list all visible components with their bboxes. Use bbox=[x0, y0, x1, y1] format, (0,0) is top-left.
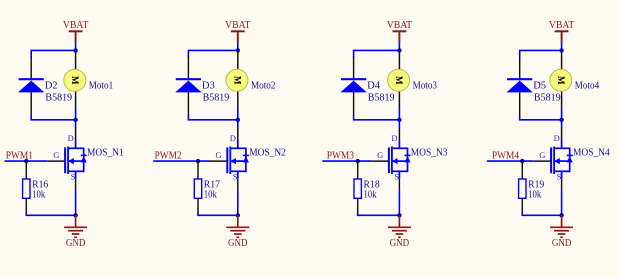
ground GND power port (circuit 3) bbox=[388, 215, 411, 237]
mosfet MOS_N3 (circuit 3) bbox=[371, 140, 410, 191]
wire resistor bottom to source node (circuit 1) bbox=[26, 213, 75, 216]
junction top node (circuit 4) bbox=[559, 48, 563, 52]
wire PWM4 net to gate (circuit 4) bbox=[487, 160, 534, 162]
svg-text:B5819: B5819 bbox=[203, 91, 230, 103]
ground GND power port (circuit 2) bbox=[226, 215, 249, 237]
wire top node to diode cathode branch (circuit 2) bbox=[188, 50, 237, 57]
svg-text:M: M bbox=[232, 76, 242, 85]
wire resistor bottom to source node (circuit 3) bbox=[358, 213, 400, 216]
svg-text:GND: GND bbox=[552, 238, 572, 249]
wire diode anode to drain node (circuit 4) bbox=[520, 115, 562, 120]
svg-text:G: G bbox=[377, 150, 383, 160]
junction source-ground node (circuit 1) bbox=[73, 213, 77, 217]
wire diode anode to drain node (circuit 3) bbox=[354, 115, 400, 120]
power port VBAT (circuit 3) bbox=[387, 20, 413, 43]
wire source pin to ground node (circuit 4) bbox=[561, 190, 563, 215]
svg-text:D: D bbox=[68, 133, 74, 143]
motor Moto2 (circuit 2) bbox=[226, 50, 248, 140]
wire resistor bottom to source node (circuit 4) bbox=[522, 213, 561, 216]
resistor R17 10k (circuit 2) bbox=[194, 161, 201, 214]
junction top node (circuit 1) bbox=[73, 48, 77, 52]
svg-text:10k: 10k bbox=[364, 189, 378, 201]
svg-text:MOS_N1: MOS_N1 bbox=[87, 147, 124, 159]
svg-text:Moto3: Moto3 bbox=[413, 80, 437, 92]
svg-text:VBAT: VBAT bbox=[387, 20, 413, 31]
wire source pin to ground node (circuit 3) bbox=[398, 190, 400, 215]
diode D3 B5819 (circuit 2) bbox=[175, 57, 201, 117]
wire source pin to ground node (circuit 2) bbox=[237, 190, 239, 215]
power port VBAT (circuit 2) bbox=[225, 20, 251, 43]
svg-text:PWM1: PWM1 bbox=[6, 151, 33, 162]
svg-text:10k: 10k bbox=[528, 189, 542, 201]
resistor R18 10k (circuit 3) bbox=[354, 161, 361, 214]
svg-text:B5819: B5819 bbox=[534, 91, 561, 103]
wire resistor bottom to source node (circuit 2) bbox=[198, 213, 238, 216]
wire top node to diode cathode branch (circuit 3) bbox=[354, 50, 400, 57]
svg-text:D2: D2 bbox=[45, 79, 58, 91]
junction source-ground node (circuit 3) bbox=[397, 213, 401, 217]
mosfet MOS_N4 (circuit 4) bbox=[533, 140, 572, 191]
wire diode anode to drain node (circuit 2) bbox=[188, 115, 237, 120]
svg-text:VBAT: VBAT bbox=[549, 20, 575, 31]
svg-text:Moto1: Moto1 bbox=[89, 80, 113, 92]
svg-text:MOS_N3: MOS_N3 bbox=[411, 147, 448, 159]
svg-text:B5819: B5819 bbox=[45, 91, 72, 103]
svg-text:M: M bbox=[556, 76, 566, 85]
ground GND power port (circuit 1) bbox=[64, 215, 87, 237]
svg-text:Moto2: Moto2 bbox=[251, 80, 275, 92]
svg-text:VBAT: VBAT bbox=[225, 20, 251, 31]
wire VBAT stem to drain net (circuit 3) bbox=[398, 43, 400, 51]
svg-text:GND: GND bbox=[228, 238, 248, 249]
svg-text:PWM3: PWM3 bbox=[327, 151, 354, 162]
junction drain node (circuit 4) bbox=[559, 118, 563, 122]
svg-text:S: S bbox=[233, 171, 238, 181]
power port VBAT (circuit 4) bbox=[549, 20, 575, 43]
svg-text:Moto4: Moto4 bbox=[575, 80, 600, 92]
junction gate-resistor node (circuit 3) bbox=[356, 159, 360, 163]
wire VBAT stem to drain net (circuit 1) bbox=[75, 43, 77, 51]
svg-text:VBAT: VBAT bbox=[63, 20, 89, 31]
svg-text:M: M bbox=[70, 76, 80, 85]
svg-text:PWM2: PWM2 bbox=[155, 151, 182, 162]
svg-text:G: G bbox=[539, 150, 545, 160]
junction drain node (circuit 2) bbox=[236, 118, 240, 122]
svg-text:B5819: B5819 bbox=[368, 91, 395, 103]
svg-text:PWM4: PWM4 bbox=[492, 151, 520, 162]
motor Moto1 (circuit 1) bbox=[64, 50, 86, 140]
ground GND power port (circuit 4) bbox=[550, 215, 573, 237]
junction top node (circuit 3) bbox=[397, 48, 401, 52]
wire top node to diode cathode branch (circuit 1) bbox=[31, 50, 75, 57]
wire VBAT stem to drain net (circuit 2) bbox=[237, 43, 239, 51]
svg-text:D5: D5 bbox=[533, 79, 546, 91]
diode D4 B5819 (circuit 3) bbox=[340, 57, 366, 117]
svg-text:GND: GND bbox=[66, 238, 86, 249]
junction gate-resistor node (circuit 4) bbox=[520, 159, 524, 163]
diode D5 B5819 (circuit 4) bbox=[507, 57, 533, 117]
svg-text:MOS_N2: MOS_N2 bbox=[249, 147, 286, 159]
junction gate-resistor node (circuit 1) bbox=[24, 159, 28, 163]
junction drain node (circuit 3) bbox=[397, 118, 401, 122]
svg-text:G: G bbox=[216, 150, 222, 160]
wire PWM1 net to gate (circuit 1) bbox=[5, 160, 48, 162]
svg-text:D: D bbox=[554, 133, 560, 143]
svg-text:M: M bbox=[394, 76, 404, 85]
motor Moto3 (circuit 3) bbox=[388, 50, 410, 140]
power port VBAT (circuit 1) bbox=[63, 20, 89, 43]
svg-text:D3: D3 bbox=[202, 79, 215, 91]
svg-text:D: D bbox=[230, 133, 236, 143]
svg-text:MOS_N4: MOS_N4 bbox=[573, 147, 610, 159]
mosfet MOS_N1 (circuit 1) bbox=[47, 140, 86, 191]
wire PWM3 net to gate (circuit 3) bbox=[322, 160, 371, 162]
svg-text:S: S bbox=[71, 171, 76, 181]
motor Moto4 (circuit 4) bbox=[550, 50, 572, 140]
svg-text:S: S bbox=[557, 171, 562, 181]
resistor R19 10k (circuit 4) bbox=[519, 161, 526, 214]
svg-text:10k: 10k bbox=[32, 189, 46, 201]
svg-text:10k: 10k bbox=[204, 189, 218, 201]
svg-text:GND: GND bbox=[390, 238, 410, 249]
wire diode anode to drain node (circuit 1) bbox=[31, 115, 75, 120]
wire PWM2 net to gate (circuit 2) bbox=[153, 160, 209, 162]
wire top node to diode cathode branch (circuit 4) bbox=[520, 50, 562, 57]
junction drain node (circuit 1) bbox=[73, 118, 77, 122]
diode D2 B5819 (circuit 1) bbox=[18, 57, 44, 117]
mosfet MOS_N2 (circuit 2) bbox=[210, 140, 249, 191]
svg-text:D: D bbox=[391, 133, 397, 143]
junction gate-resistor node (circuit 2) bbox=[196, 159, 200, 163]
svg-text:D4: D4 bbox=[367, 79, 380, 91]
wire source pin to ground node (circuit 1) bbox=[75, 190, 77, 215]
wire VBAT stem to drain net (circuit 4) bbox=[561, 43, 563, 51]
svg-text:S: S bbox=[394, 171, 399, 181]
svg-text:G: G bbox=[53, 150, 59, 160]
resistor R16 10k (circuit 1) bbox=[23, 161, 30, 214]
junction source-ground node (circuit 4) bbox=[559, 213, 563, 217]
junction top node (circuit 2) bbox=[236, 48, 240, 52]
junction source-ground node (circuit 2) bbox=[236, 213, 240, 217]
